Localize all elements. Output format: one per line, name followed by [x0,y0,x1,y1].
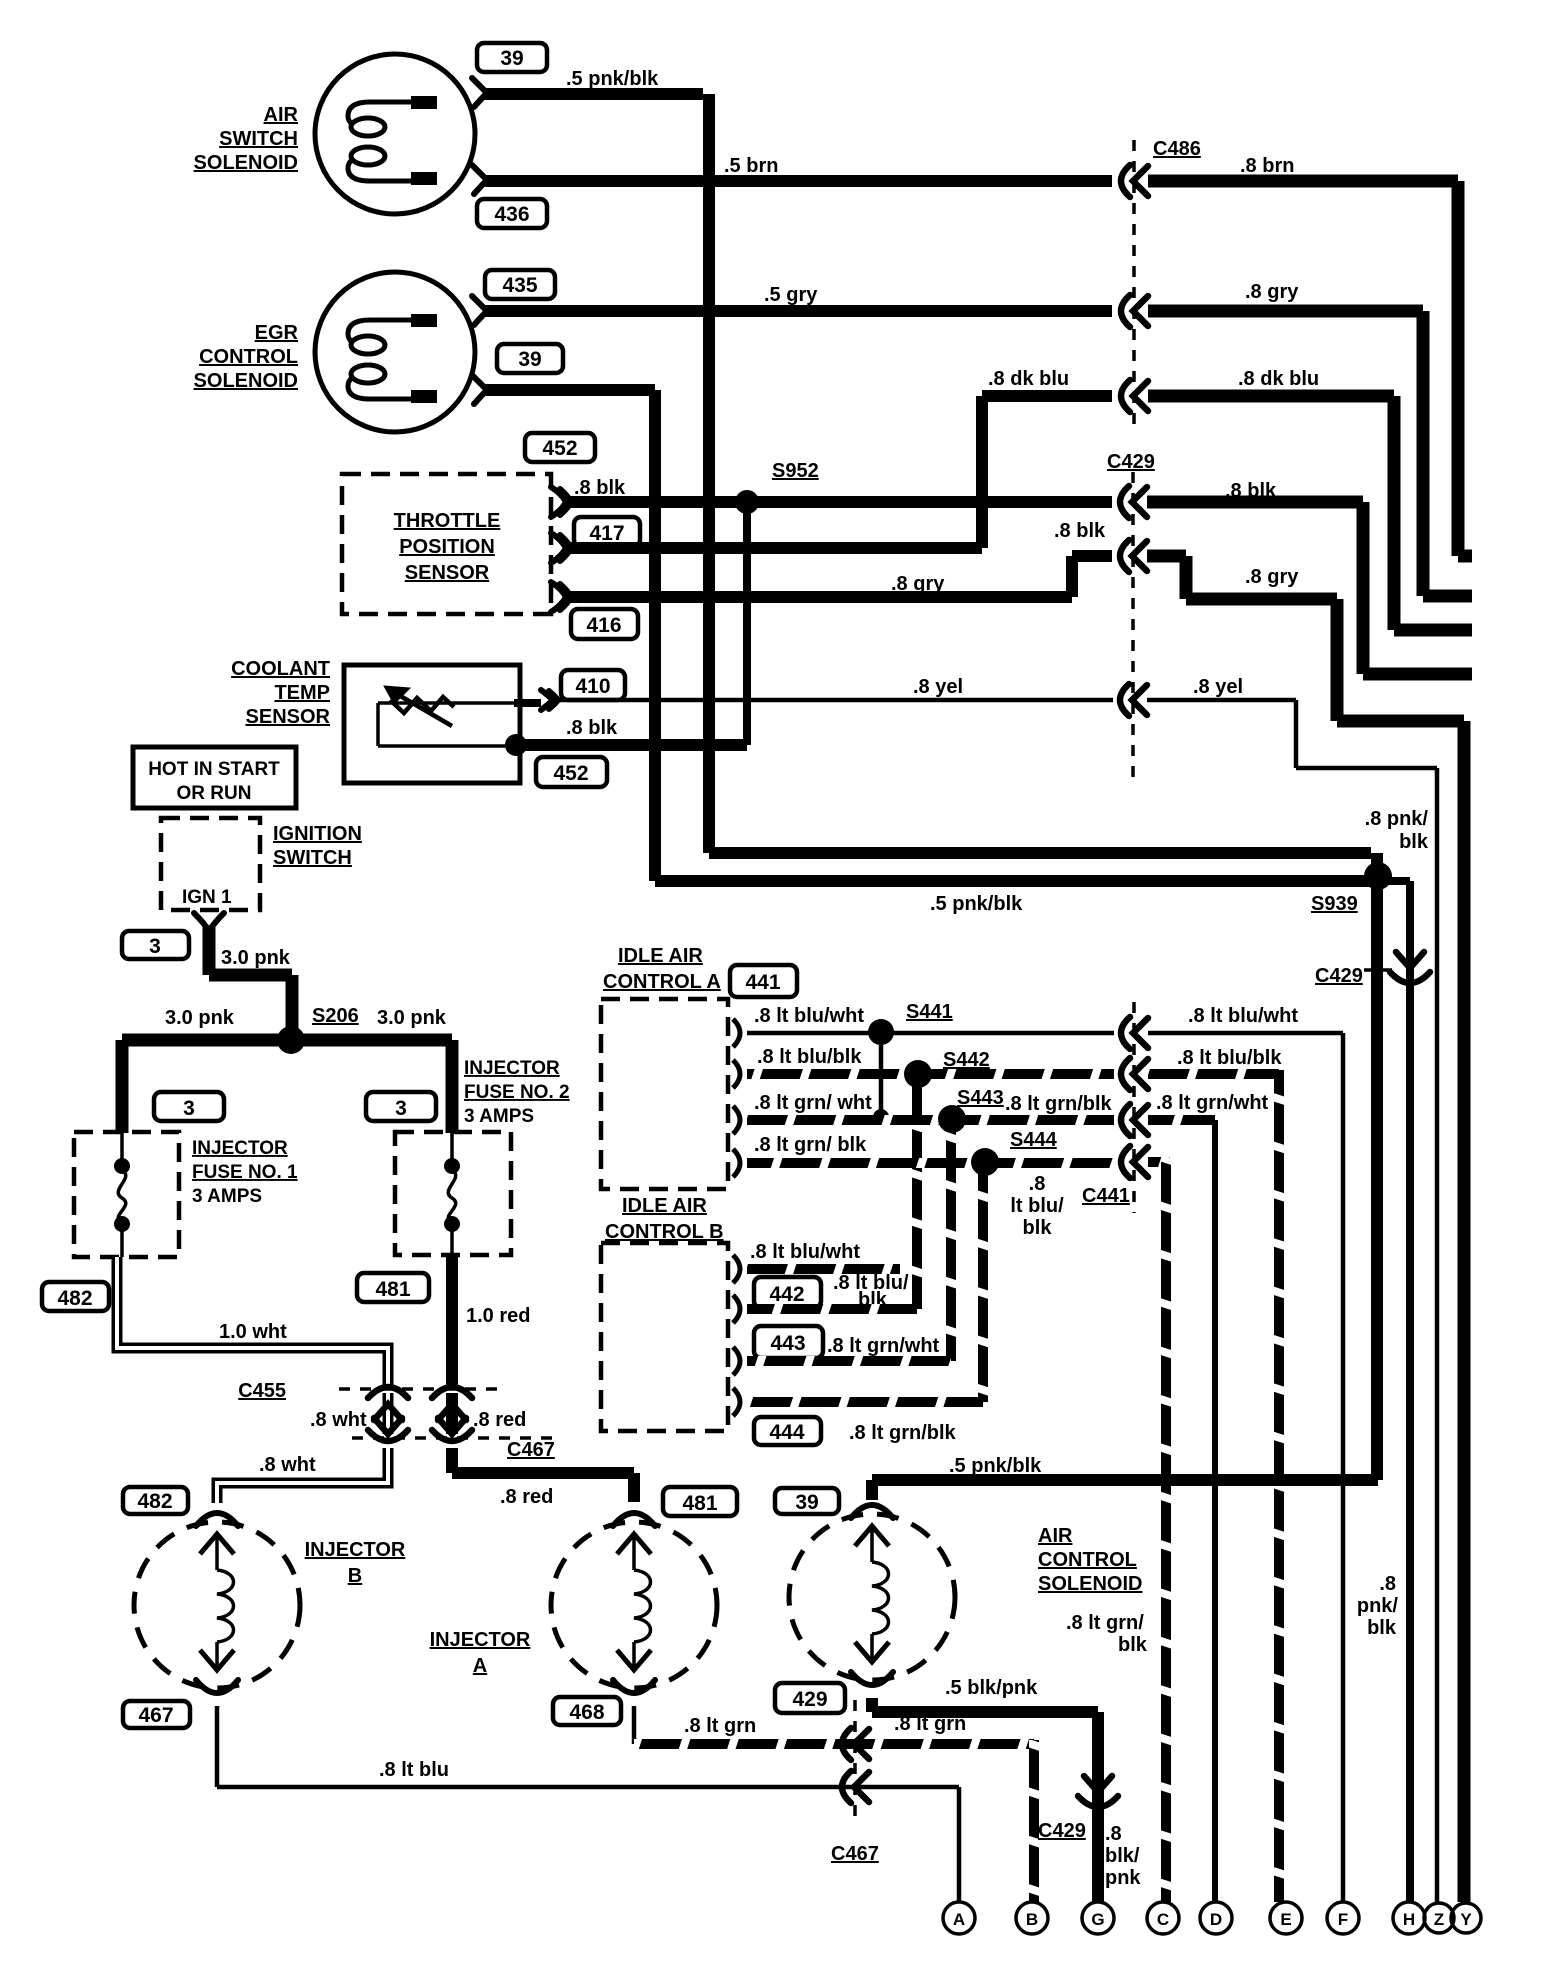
svg-text:HOT IN START: HOT IN START [148,759,280,780]
svg-text:S443: S443 [957,1087,1004,1109]
svg-text:A: A [953,1910,965,1929]
svg-text:416: 416 [586,614,621,637]
terminal 39 of air switch solenoid [472,78,487,107]
terminal B [1016,1902,1048,1934]
svg-text:441: 441 [745,971,780,994]
wire .8 lt blu/wht IAC B [747,1241,900,1269]
svg-text:417: 417 [589,522,624,545]
idle air control B box [601,1243,728,1431]
wire .8 red to injector A [452,1448,634,1508]
terminal E [1270,1902,1302,1934]
svg-text:S206: S206 [312,1005,359,1027]
svg-text:FUSE NO. 2: FUSE NO. 2 [464,1082,570,1103]
svg-text:SENSOR: SENSOR [246,706,331,728]
svg-text:.8 lt blu/blk: .8 lt blu/blk [1177,1047,1282,1069]
splice S206 [277,1005,359,1054]
connector C467 cavity .8 lt blu [842,1771,869,1803]
connector C441 cavity row4 [1121,1146,1148,1178]
svg-text:443: 443 [770,1332,805,1355]
wire .8 lt blu/blk IAC B [747,1304,917,1314]
svg-text:3.0 pnk: 3.0 pnk [221,947,291,969]
wire red stub through connectors [446,1393,458,1434]
svg-text:TEMP: TEMP [274,682,330,704]
svg-text:468: 468 [569,1701,604,1724]
svg-text:C429: C429 [1038,1820,1086,1842]
terminal F [1327,1902,1359,1934]
wire .8 lt blu/blk right of C441 to E [1148,1047,1282,1902]
svg-text:442: 442 [769,1283,804,1306]
box 468 [553,1697,621,1725]
svg-text:3 AMPS: 3 AMPS [192,1186,262,1207]
svg-text:.8 lt grn/wht: .8 lt grn/wht [1156,1092,1269,1114]
splice S939 [1311,862,1392,915]
box 436 [477,199,547,228]
box 482 [42,1282,109,1311]
wire .8 blk TPS 452 to S952 and C429 [566,477,1112,502]
connector C486 dashed line [1134,138,1201,432]
connector C467 cavity wht [368,1418,408,1441]
svg-text:INJECTOR: INJECTOR [192,1138,288,1159]
wire .8 yel right of C429 to Z [1147,676,1437,1902]
wire .8 dk blu left of C486 [982,368,1112,548]
label AIR SWITCH SOLENOID [194,104,299,174]
svg-text:COOLANT: COOLANT [231,658,330,680]
svg-text:.8 gry: .8 gry [1245,281,1299,303]
svg-text:S952: S952 [772,460,819,482]
box 481 injector A [663,1487,737,1516]
svg-text:.8 gry: .8 gry [1245,566,1299,588]
svg-text:EGR: EGR [255,322,299,344]
svg-text:.8 lt grn/: .8 lt grn/ [1066,1612,1144,1634]
wire .5 blk/pnk from air control solenoid to G [872,1677,1098,1902]
terminal C [1147,1902,1179,1934]
terminal 441 IAC A [733,1019,740,1047]
svg-text:1.0 red: 1.0 red [466,1305,530,1327]
svg-text:.8 lt blu/blk: .8 lt blu/blk [757,1046,862,1068]
wire .8 lt blu/blk IAC A [747,1046,1114,1074]
wire .8 wht hollow to injector B [217,1448,388,1503]
terminal Y [1451,1903,1481,1933]
wire 3.0 pnk bus [122,1007,452,1133]
svg-text:429: 429 [792,1688,827,1711]
svg-text:452: 452 [553,762,588,785]
injector A [551,1513,717,1693]
wire .8 pnk/blk upper to S939 [709,808,1429,853]
svg-text:3: 3 [149,935,161,958]
box 39 EGR [497,344,563,373]
svg-text:.8 lt blu/wht: .8 lt blu/wht [1188,1005,1298,1027]
wire .8 lt blu/wht right of C441 to F [1148,1005,1343,1902]
label INJECTOR B [305,1539,406,1587]
svg-text:CONTROL: CONTROL [1038,1549,1137,1571]
box 3 ignition [122,931,189,959]
wire .5 pnk/blk lower to S939 [655,881,1371,915]
wire .8 lt grn/blk IAC B [747,1402,983,1444]
svg-text:SOLENOID: SOLENOID [194,370,298,392]
label .8 lt blu/blk at S444 [1010,1173,1064,1239]
svg-text:.8 gry: .8 gry [891,573,945,595]
svg-text:C467: C467 [831,1843,879,1865]
connector C486 cavity .8 gry [1121,295,1148,327]
svg-text:C455: C455 [238,1380,286,1402]
terminal G [1082,1902,1114,1934]
throttle position sensor box [342,474,551,614]
coolant temp sensor box [344,665,541,783]
terminal 442 IAC A [733,1060,740,1088]
svg-text:.8 red: .8 red [473,1409,526,1431]
connector C455 dashed line [238,1380,504,1402]
svg-text:.8 brn: .8 brn [1240,155,1294,177]
wire .8 lt grn/blk IAC A [747,1134,1114,1163]
svg-text:.8 red: .8 red [500,1486,553,1508]
label IDLE AIR CONTROL B [605,1195,724,1243]
box 410 [561,670,625,700]
svg-text:.5 pnk/blk: .5 pnk/blk [949,1455,1042,1477]
svg-text:.8 pnk/: .8 pnk/ [1365,808,1429,830]
splice S952 [735,460,819,745]
terminal 1 IAC B [733,1255,740,1283]
svg-text:THROTTLE: THROTTLE [394,510,501,532]
svg-text:436: 436 [494,203,529,226]
svg-text:.8 wht: .8 wht [259,1454,316,1476]
svg-text:.8 blk: .8 blk [574,477,626,499]
wire 1.0 wht hollow from fuse1 [117,1257,388,1385]
svg-text:.8 dk blu: .8 dk blu [988,368,1069,390]
svg-text:.8 blk: .8 blk [1225,480,1277,502]
svg-text:FUSE NO. 1: FUSE NO. 1 [192,1162,298,1183]
svg-text:SENSOR: SENSOR [405,562,490,584]
box 416 TPS [571,609,638,639]
connector C467 dashed line fuse area [352,1438,560,1461]
injector B [134,1513,300,1693]
svg-text:CONTROL A: CONTROL A [603,971,721,993]
wire 1.0 red from fuse2 [452,1255,530,1386]
svg-text:435: 435 [502,274,537,297]
box 482 injector B [123,1487,188,1514]
solenoid AIR SWITCH SOLENOID body [315,54,475,214]
wire .8 gry right of C486 [1148,281,1472,596]
terminal 435 of EGR solenoid [472,296,487,325]
box 429 [775,1683,845,1713]
svg-text:A: A [473,1655,487,1677]
wire .5 gry from EGR 435 [484,284,1112,311]
svg-text:blk/: blk/ [1105,1845,1140,1867]
svg-text:39: 39 [500,47,523,70]
wire wht stub through connectors [383,1393,394,1434]
connector C429 on G wire [1038,1776,1118,1842]
wire .8 lt grn from injector A [634,1706,1034,1902]
box 39 air control [775,1488,839,1514]
svg-text:Y: Y [1460,1910,1472,1929]
connector C441 cavity row1 [1121,1017,1148,1049]
label .8 blk/pnk [1105,1823,1141,1889]
svg-text:H: H [1403,1910,1415,1929]
wire .5 brn from air switch solenoid 436 [484,155,1112,181]
connector C429 cavity .8 blk [1120,486,1147,518]
svg-text:.8 lt blu: .8 lt blu [379,1759,449,1781]
wire .8 lt blu/wht IAC A [747,1005,1114,1033]
svg-text:S939: S939 [1311,893,1358,915]
connector C441 cavity row3 [1121,1104,1148,1136]
svg-text:.8 wht: .8 wht [310,1409,367,1431]
splice S442 [904,1049,990,1309]
svg-text:3: 3 [395,1097,407,1120]
svg-text:.5 pnk/blk: .5 pnk/blk [566,68,659,90]
splice S443 [938,1087,1004,1361]
wire .8 lt grn/wht IAC B [747,1335,951,1361]
svg-text:.8 yel: .8 yel [913,676,963,698]
connector C441 cavity row2 [1121,1058,1148,1090]
box 3 fuse1 [154,1092,224,1121]
svg-text:.8 lt grn/ wht: .8 lt grn/ wht [754,1092,872,1114]
connector C486 cavity .8 dk blu [1121,380,1148,412]
splice S441 [868,1001,953,1125]
wire .8 gry TPS 416 [566,556,1112,597]
box 452 coolant [536,757,607,787]
svg-text:F: F [1338,1910,1348,1929]
svg-text:.8 lt grn: .8 lt grn [684,1715,756,1737]
svg-text:SOLENOID: SOLENOID [194,152,298,174]
wire .8 gry right of C429 to Y [1147,556,1464,1902]
svg-text:blk: blk [1023,1217,1053,1239]
svg-text:C429: C429 [1315,965,1363,987]
svg-text:.5 blk/pnk: .5 blk/pnk [945,1677,1038,1699]
svg-text:AIR: AIR [264,104,299,126]
terminal 444 IAC A [733,1149,740,1177]
svg-text:S441: S441 [906,1001,953,1023]
terminal 442 IAC B [733,1295,740,1323]
svg-text:.8 blk: .8 blk [566,717,618,739]
svg-text:AIR: AIR [1038,1525,1073,1547]
terminal 410 of coolant sensor [541,690,558,710]
svg-text:E: E [1280,1910,1291,1929]
svg-text:C441: C441 [1082,1185,1130,1207]
svg-text:SWITCH: SWITCH [219,128,298,150]
svg-text:.8 dk blu: .8 dk blu [1238,368,1319,390]
fuse INJECTOR FUSE NO. 1 [74,1132,179,1257]
terminal 436 of air switch solenoid [472,165,487,194]
svg-text:.5 brn: .5 brn [724,155,778,177]
svg-text:.8 lt grn/blk: .8 lt grn/blk [849,1422,957,1444]
box 39 [477,43,547,72]
svg-text:INJECTOR: INJECTOR [305,1539,406,1561]
terminal 443 IAC A [733,1106,740,1134]
svg-text:.8: .8 [1105,1823,1122,1845]
connector C429 cavity .8 yel [1120,684,1147,716]
connector C455 cavity wht [368,1387,408,1420]
svg-text:SWITCH: SWITCH [273,847,352,869]
svg-text:3: 3 [183,1097,195,1120]
box 442 [754,1277,821,1308]
box 444 [754,1417,821,1445]
svg-text:B: B [1026,1910,1038,1929]
label IDLE AIR CONTROL A [603,945,721,993]
svg-text:410: 410 [575,675,610,698]
svg-text:blk: blk [1399,831,1429,853]
svg-text:.8 lt grn/wht: .8 lt grn/wht [827,1335,940,1357]
svg-text:S442: S442 [943,1049,990,1071]
wire .8 lt grn/wht right of C441 to D [1148,1092,1269,1902]
terminal IGN 1 [194,913,224,931]
svg-text:3.0 pnk: 3.0 pnk [165,1007,235,1029]
svg-text:.8 lt grn/blk: .8 lt grn/blk [1005,1093,1113,1115]
box 441 [730,965,797,997]
connector C467 cavity .8 lt grn [842,1728,869,1760]
wire .8 blk coolant to S952 [505,717,747,756]
box 481 [357,1273,429,1302]
svg-text:G: G [1091,1910,1104,1929]
svg-text:39: 39 [518,348,541,371]
connector C441 dashed line [1082,1002,1134,1213]
svg-text:CONTROL: CONTROL [199,346,298,368]
terminal H [1393,1902,1425,1934]
svg-text:39: 39 [795,1491,818,1514]
connector C486 cavity .8 brn [1121,165,1148,197]
svg-text:POSITION: POSITION [399,536,495,558]
wire .8 lt blu from injector B [217,1706,959,1902]
svg-text:lt blu/: lt blu/ [1010,1195,1064,1217]
connector C429 cavity .8 gry [1120,540,1147,572]
wire .8 wht labels [310,1409,526,1431]
label COOLANT TEMP SENSOR [231,658,330,728]
terminal 417 of TPS [551,533,571,563]
wire .8 blk right of C429 [1054,480,1472,674]
svg-text:467: 467 [138,1704,173,1727]
svg-text:IGN 1: IGN 1 [182,887,232,908]
svg-text:IDLE AIR: IDLE AIR [618,945,703,967]
svg-text:.8 blk: .8 blk [1054,520,1106,542]
wire .8 brn right of C486 [1148,155,1472,556]
svg-text:.8: .8 [1379,1573,1396,1595]
label .8 lt grn/blk near C [1066,1612,1148,1656]
fuse INJECTOR FUSE NO. 2 [395,1132,511,1255]
svg-text:CONTROL B: CONTROL B [605,1221,724,1243]
terminal A [943,1902,975,1934]
svg-text:S444: S444 [1010,1129,1058,1151]
label INJECTOR FUSE NO. 2 3 AMPS [464,1058,570,1127]
label AIR CONTROL SOLENOID [1038,1525,1142,1595]
svg-text:C: C [1157,1910,1169,1929]
wire .8 lt grn/wht IAC A [747,1092,1114,1120]
svg-text:IGNITION: IGNITION [273,823,362,845]
label INJECTOR FUSE NO. 1 3 AMPS [192,1138,298,1207]
box 435 [485,270,555,299]
svg-text:481: 481 [375,1278,410,1301]
svg-text:.8 lt grn/ blk: .8 lt grn/ blk [754,1134,867,1156]
svg-text:OR RUN: OR RUN [177,783,252,804]
svg-text:.8 lt blu/wht: .8 lt blu/wht [750,1241,860,1263]
svg-text:INJECTOR: INJECTOR [430,1629,531,1651]
idle air control A box [601,999,728,1189]
box 452 TPS [525,433,595,462]
wire .8 dk blu TPS 417 [566,542,982,554]
box 3 fuse2 [366,1092,436,1121]
svg-text:452: 452 [542,437,577,460]
label .8 lt blu/blk IAC B [833,1272,909,1311]
connector C429 label upper [1107,451,1155,778]
svg-text:pnk/: pnk/ [1357,1595,1399,1617]
svg-text:C429: C429 [1107,451,1155,473]
label EGR CONTROL SOLENOID [194,322,299,392]
box 467 [123,1701,190,1728]
svg-text:3 AMPS: 3 AMPS [464,1106,534,1127]
wire 39 pnk/blk from EGR bottom [484,390,655,881]
svg-text:D: D [1210,1910,1222,1929]
svg-text:INJECTOR: INJECTOR [464,1058,560,1079]
wire 3.0 pnk from ignition [209,926,292,1040]
connector C455 cavity red [432,1387,472,1420]
wire .5 pnk/blk from S939 down to air control solenoid [872,853,1378,1500]
svg-text:B: B [348,1565,362,1587]
connector C429 on H wire [1315,952,1430,987]
box HOT IN START OR RUN [133,747,296,808]
svg-text:482: 482 [137,1490,172,1513]
svg-text:481: 481 [682,1492,717,1515]
terminal 452 of TPS [551,487,571,517]
connector C467 bottom dashed line [831,1700,879,1865]
terminal 39 of EGR solenoid [472,375,487,404]
svg-text:pnk: pnk [1105,1867,1141,1889]
svg-text:.8 lt blu/wht: .8 lt blu/wht [754,1005,864,1027]
label INJECTOR A [430,1629,531,1677]
connector C467 cavity red [432,1418,472,1441]
svg-text:482: 482 [57,1287,92,1310]
svg-text:.5 pnk/blk: .5 pnk/blk [930,893,1023,915]
svg-text:444: 444 [769,1421,804,1444]
svg-text:C467: C467 [507,1439,555,1461]
splice S444 [971,1129,1058,1402]
svg-text:.8 yel: .8 yel [1193,676,1243,698]
terminal Z [1424,1903,1454,1933]
svg-text:.5 gry: .5 gry [764,284,818,306]
svg-text:3.0 pnk: 3.0 pnk [377,1007,447,1029]
svg-text:blk: blk [1118,1634,1148,1656]
terminal 443 IAC B [733,1347,740,1375]
box 417 TPS [574,517,640,547]
box 443 [754,1326,823,1358]
svg-text:1.0 wht: 1.0 wht [219,1321,287,1343]
ignition switch box [161,818,362,910]
wire .5 pnk/blk from air switch solenoid 39 [484,68,709,853]
terminal 444 IAC B [733,1388,740,1416]
wire .8 yel left of C429 [556,676,1113,700]
svg-text:blk: blk [1367,1617,1397,1639]
air control solenoid [789,1505,955,1685]
svg-text:.8: .8 [1029,1173,1046,1195]
svg-text:C486: C486 [1153,138,1201,160]
terminal D [1200,1902,1232,1934]
wire .8 lt grn/blk right of C441 to C [1005,1093,1170,1902]
svg-text:Z: Z [1434,1910,1444,1929]
terminal 416 of TPS [551,582,571,612]
svg-text:IDLE AIR: IDLE AIR [622,1195,707,1217]
wire .8 dk blu right of C486 [1148,368,1472,630]
svg-text:SOLENOID: SOLENOID [1038,1573,1142,1595]
wire .8 pnk/blk from S939 to H [1357,881,1410,1902]
solenoid EGR CONTROL SOLENOID body [315,272,475,432]
